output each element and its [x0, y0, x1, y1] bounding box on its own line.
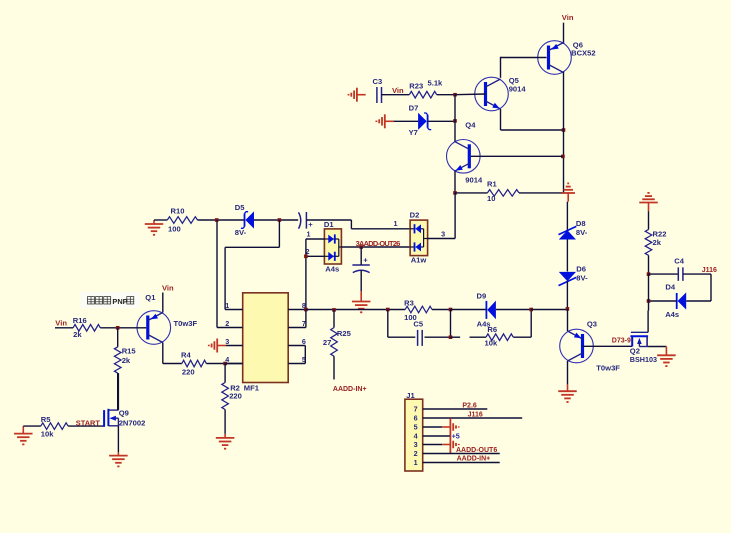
resistor R10	[167, 217, 197, 224]
value A1w (D2)	[411, 256, 427, 265]
wire R1 right to rail corner	[519, 192, 564, 194]
ground symbol GND (Q9)	[109, 452, 128, 466]
svg-text:10: 10	[487, 194, 495, 203]
IC MF1 body	[243, 293, 289, 383]
wire Q3 emitter up	[567, 309, 569, 331]
wire R6 right riser	[530, 310, 532, 338]
svg-text:6: 6	[302, 337, 306, 346]
wire Q9 drain up	[117, 373, 119, 410]
junction pin8 node	[304, 308, 308, 312]
ground symbol GND (Q3)	[558, 384, 577, 402]
svg-text:D9: D9	[477, 292, 487, 301]
value 8V- (D6)	[576, 274, 588, 283]
wire Q1 collector to R4	[163, 363, 182, 365]
designator D7	[409, 104, 419, 113]
designator Q4	[465, 121, 476, 130]
svg-text:Vin: Vin	[162, 283, 174, 292]
designator R2	[230, 384, 240, 393]
svg-text:2k: 2k	[122, 356, 131, 365]
power port Vin (R16 left)	[55, 318, 67, 327]
wire junction to R2	[224, 364, 226, 383]
wire R23 to node	[437, 94, 455, 96]
designator D6	[576, 265, 586, 274]
value BSH103	[630, 355, 657, 364]
svg-text:A1w: A1w	[411, 256, 427, 265]
svg-text:+5: +5	[452, 432, 460, 441]
wire Q4 base to rail	[471, 155, 563, 157]
wire D1 common to D2 pin2	[341, 246, 410, 248]
junction cap branch	[359, 245, 363, 249]
wire D8 to D6	[566, 240, 568, 272]
svg-text:3: 3	[225, 337, 229, 346]
pin 5 (J1)	[414, 423, 418, 432]
wire Q5 emitter to rail	[501, 129, 564, 131]
net label START	[76, 418, 101, 427]
wire pin1 riser	[224, 247, 226, 309]
value 8V- (D5)	[235, 228, 247, 237]
designator R10	[171, 206, 185, 215]
wire C5 branch right riser	[450, 310, 452, 338]
svg-text:D6: D6	[576, 265, 586, 274]
svg-text:2: 2	[414, 449, 418, 458]
svg-text:+: +	[363, 256, 368, 265]
wire R1 left	[455, 192, 487, 194]
capacitor (polarized, to ground)	[352, 256, 369, 273]
svg-text:R1: R1	[487, 180, 497, 189]
pin 6 (J1)	[414, 414, 418, 423]
junction R6 / bus right	[529, 308, 533, 312]
designator R6	[487, 325, 497, 334]
svg-text:9014: 9014	[509, 84, 527, 93]
mosfet Q2 (BSH103)	[630, 311, 648, 347]
designator Q2	[630, 347, 640, 356]
svg-text:7: 7	[414, 405, 418, 414]
value 220 (R2)	[229, 392, 242, 401]
ground symbol GND (Q2)	[657, 347, 676, 367]
designator R5	[41, 415, 51, 424]
svg-text:J1: J1	[406, 391, 415, 400]
value 2k (R22)	[653, 238, 662, 247]
svg-text:9014: 9014	[465, 175, 483, 184]
svg-text:2N7002: 2N7002	[119, 418, 146, 427]
resistor R16	[73, 325, 100, 332]
svg-text:10k: 10k	[41, 429, 54, 438]
wire cap to corner	[306, 219, 351, 221]
wire R10 to D5	[198, 219, 245, 221]
svg-text:2: 2	[225, 319, 229, 328]
svg-text:R5: R5	[41, 415, 51, 424]
resistor R23	[409, 91, 436, 98]
svg-text:D5: D5	[235, 203, 245, 212]
note box (Chinese text)	[81, 292, 141, 308]
svg-text:1: 1	[414, 458, 418, 467]
diode D9 (A4s)	[486, 301, 496, 320]
pin 3 (MF1)	[225, 337, 229, 346]
wire node to D9	[451, 309, 487, 311]
svg-text:8V-: 8V-	[235, 228, 247, 237]
wire node down to Q4 collector	[454, 95, 456, 142]
svg-text:D1: D1	[324, 220, 334, 229]
svg-text:Y7: Y7	[409, 128, 418, 137]
value T0w3F (Q3)	[596, 363, 620, 372]
wire Q6 base node down to Q5 collector	[500, 57, 502, 78]
svg-text:5.1k: 5.1k	[428, 79, 444, 88]
wire MF1 pin2	[217, 327, 243, 329]
pin 8 (MF1)	[302, 301, 306, 310]
capacitor C4	[678, 267, 683, 281]
junction D7 / Q4 collector line	[453, 119, 457, 123]
svg-text:3: 3	[441, 229, 445, 238]
designator R15	[122, 347, 137, 356]
value A4s (D9)	[477, 320, 491, 329]
designator D8	[576, 219, 586, 228]
junction pin2 riser / top line	[215, 218, 219, 222]
junction D4 / Q2 drain	[647, 299, 651, 303]
svg-text:Vin: Vin	[562, 13, 574, 22]
wire node between	[648, 274, 650, 301]
junction D1 pin2 / riser	[304, 255, 308, 259]
svg-text:100: 100	[168, 224, 181, 233]
junction Q5 emitter / rail	[562, 128, 566, 132]
svg-text:AADD-IN+: AADD-IN+	[333, 386, 367, 393]
connector J1 body	[405, 399, 423, 471]
ground symbol GND (MF1 pin3)	[209, 339, 226, 353]
capacitor (polarized, top line)	[299, 212, 314, 229]
value 27 (R25)	[323, 338, 331, 347]
svg-text:10k: 10k	[485, 339, 498, 348]
wire R6 stub	[451, 336, 461, 338]
pin 2 (MF1)	[225, 319, 229, 328]
designator R22	[653, 230, 667, 239]
junction R23 / Q5 base / Q4 collector	[453, 93, 457, 97]
junction C5 left / bus	[386, 308, 390, 312]
value 220 (R4)	[182, 367, 195, 376]
pin 7 (J1)	[414, 405, 418, 414]
svg-text:A4s: A4s	[325, 264, 339, 273]
designator Q9	[119, 409, 129, 418]
svg-text:AADD-OUT6: AADD-OUT6	[456, 447, 497, 454]
wire C5 branch right	[425, 336, 451, 338]
svg-text:3: 3	[414, 440, 418, 449]
value 9014 (Q5)	[509, 84, 527, 93]
designator C5	[413, 320, 423, 329]
wire R25 drop	[333, 310, 335, 328]
svg-text:2k: 2k	[73, 330, 82, 339]
svg-text:Q9: Q9	[119, 409, 129, 418]
designator D1	[324, 220, 334, 229]
resistor R25	[331, 328, 338, 357]
wire junction to cap	[360, 247, 362, 265]
svg-text:R3: R3	[404, 299, 414, 308]
designator R1	[487, 180, 497, 189]
svg-text:Q3: Q3	[587, 319, 597, 328]
svg-text:T0w3F: T0w3F	[596, 363, 620, 372]
svg-text:R16: R16	[73, 316, 87, 325]
wire Vin to Q6 emitter	[563, 23, 565, 44]
wire J1 pin2	[423, 453, 500, 455]
ground symbol GND (R5 left)	[14, 426, 33, 444]
wire R15 to Q9 drain	[117, 373, 119, 410]
value 10k (R5)	[41, 429, 54, 438]
wire node to Q2 drain	[648, 301, 650, 311]
transistor Q3 (PNP T0w3F, mirrored)	[560, 329, 594, 363]
svg-text:5: 5	[414, 423, 418, 432]
svg-text:PNP: PNP	[112, 297, 127, 306]
diode D7 (zener Y7)	[418, 113, 431, 130]
resistor R3	[405, 306, 432, 313]
wire C3 to R23	[382, 94, 410, 96]
wire corner to D2 pin1	[351, 228, 410, 230]
svg-text:4: 4	[225, 355, 229, 364]
net label D73-9	[612, 337, 631, 344]
mosfet Q9 (2N7002)	[104, 409, 118, 427]
wire J1 pin3	[423, 444, 443, 446]
pin 2 label (D1)	[306, 247, 310, 256]
designator R16	[73, 316, 87, 325]
value 10	[487, 194, 495, 203]
value T0w3F (Q1)	[174, 319, 198, 328]
wire R6 right	[513, 336, 531, 338]
designator D5	[235, 203, 245, 212]
svg-text:8V-: 8V-	[576, 274, 588, 283]
svg-text:3AADD-OUT26: 3AADD-OUT26	[356, 239, 401, 248]
svg-text:1: 1	[225, 301, 229, 310]
wire Vin to R16	[55, 327, 73, 329]
pin 1 (J1)	[414, 458, 418, 467]
diode D4 (A4s)	[677, 292, 687, 309]
zener diode D8 (8V-)	[559, 226, 577, 239]
value 9014 (Q4)	[465, 175, 483, 184]
wire J1 pin5	[423, 426, 443, 428]
svg-text:1: 1	[307, 230, 311, 239]
svg-text:D4: D4	[665, 282, 675, 291]
wire bus to Q3 node	[531, 309, 567, 311]
net label Vin (at C3)	[392, 86, 404, 95]
wire D5 to cap	[254, 219, 298, 221]
wire D1 pins riser	[305, 239, 307, 310]
designator R3	[404, 299, 414, 308]
net label AADD-OUT6	[456, 447, 497, 454]
pin 4 (J1)	[414, 432, 418, 441]
wire C4 left	[649, 273, 679, 275]
wire bus D9 to junction	[496, 309, 531, 311]
capacitor C3	[377, 87, 382, 103]
svg-text:1: 1	[394, 219, 398, 228]
wire pin6 to pin5	[304, 346, 306, 364]
svg-text:BSH103: BSH103	[630, 355, 657, 364]
zener diode D6 (8V-)	[559, 272, 577, 286]
value BCX52	[571, 49, 595, 58]
resistor R15	[114, 347, 121, 373]
junction pin1 riser / top line	[278, 218, 282, 222]
wire pin2 riser	[216, 220, 218, 328]
wire corner down	[350, 220, 352, 229]
pin 3 (J1)	[414, 440, 418, 449]
resistor R6	[486, 334, 513, 341]
pin 7 (MF1)	[302, 319, 306, 328]
pin 6 (MF1)	[302, 337, 306, 346]
wire D7 anode	[394, 120, 419, 122]
wire Q1 collector down	[162, 343, 164, 364]
pin 5 (MF1)	[302, 355, 306, 364]
svg-text:6: 6	[414, 414, 418, 423]
note text (CJK strokes + PNP)	[88, 297, 134, 307]
value A4s (D1)	[325, 264, 339, 273]
ground symbol GND (J1 pin5)	[442, 418, 459, 436]
wire D2 pin3 riser	[454, 193, 456, 239]
svg-text:START: START	[76, 418, 101, 427]
designator C4	[674, 257, 684, 266]
value 8V- (D8)	[576, 228, 588, 237]
junction Q3 emitter / D6 / bus	[566, 307, 570, 311]
svg-text:C4: C4	[674, 257, 684, 266]
power port Vin (Q1)	[162, 283, 174, 292]
svg-text:Q1: Q1	[145, 293, 156, 302]
wire MF1 pin4	[225, 363, 243, 365]
svg-text:C5: C5	[413, 320, 423, 329]
value 2k (R15)	[122, 356, 131, 365]
designator Q1	[145, 293, 156, 302]
value 5.1k	[428, 79, 444, 88]
svg-text:MF1: MF1	[244, 384, 260, 393]
wire R22 to C4 node	[648, 255, 650, 274]
designator R25	[337, 329, 352, 338]
wire MF1 pin8	[288, 309, 306, 311]
wire Q3 collector down	[567, 361, 569, 384]
wire MF1 pin6	[288, 345, 305, 347]
value A4s (D4)	[665, 310, 679, 319]
svg-text:220: 220	[229, 392, 242, 401]
value 100 (R10)	[168, 224, 181, 233]
svg-text:8V-: 8V-	[576, 228, 588, 237]
diode pack D2 (A1w)	[410, 220, 428, 256]
wire MF1 pin3	[226, 345, 243, 347]
wire R25 tail	[333, 356, 335, 379]
wire R4 to MF1 pin4	[206, 363, 242, 365]
wire Q5 base	[455, 93, 486, 96]
svg-text:BCX52: BCX52	[571, 49, 595, 58]
zener diode D5 (8V-)	[241, 211, 254, 228]
ground symbol GND (R2)	[216, 434, 235, 449]
ground symbol GND (R10 left)	[145, 220, 164, 235]
wire Q4 emitter down	[454, 171, 456, 193]
designator D9	[477, 292, 487, 301]
resistor R22	[645, 230, 652, 256]
wire Q5 emitter down	[500, 109, 502, 130]
wire R2 to gnd	[224, 410, 226, 434]
capacitor C5	[418, 330, 423, 346]
ground symbol GND (J1 pin3)	[442, 436, 459, 454]
designator Q6	[573, 40, 583, 49]
svg-text:A4s: A4s	[477, 320, 491, 329]
resistor R4	[182, 360, 206, 367]
value 100 (R3)	[404, 313, 417, 322]
net label P2.6	[462, 403, 477, 410]
svg-text:D8: D8	[576, 219, 586, 228]
value 2k (R16)	[73, 330, 82, 339]
wire pin1 riser up	[278, 220, 280, 247]
net label AADD-IN+ (J1)	[457, 455, 491, 462]
value Y7	[409, 128, 418, 137]
svg-text:Q4: Q4	[465, 121, 476, 130]
wire gnd to R10	[154, 219, 167, 221]
designator R23	[409, 82, 423, 91]
wire D4 to node	[649, 300, 677, 302]
designator D2	[410, 211, 420, 220]
transistor Q1 (PNP T0w3F)	[137, 311, 171, 345]
designator Q5	[509, 76, 520, 85]
svg-text:220: 220	[182, 367, 195, 376]
wire D2 pin3	[428, 238, 456, 240]
wire R3 right to node	[432, 309, 451, 311]
svg-text:C3: C3	[373, 77, 383, 86]
power port Vin (top right)	[562, 13, 574, 22]
junction Q4 emitter / R1 / D2	[453, 191, 457, 195]
value 2N7002	[119, 418, 146, 427]
wire D6 to Q3 node	[566, 281, 568, 309]
svg-text:27: 27	[323, 338, 331, 347]
ground symbol GND (D7 left)	[376, 114, 393, 128]
wire pin7 to pin8 node	[305, 310, 307, 328]
designator R4	[181, 350, 191, 359]
junction C5 right / R6 left	[449, 335, 453, 339]
svg-text:A4s: A4s	[665, 310, 679, 319]
wire R6 left	[470, 336, 487, 338]
transistor Q5 (NPN 9014)	[475, 77, 509, 111]
svg-text:AADD-IN+: AADD-IN+	[457, 455, 491, 462]
svg-text:R23: R23	[409, 82, 423, 91]
pin 1 (MF1)	[225, 301, 229, 310]
junction R4 / R2 / pin4	[223, 362, 227, 366]
resistor R2	[222, 383, 229, 410]
junction rail / Q4 base	[561, 155, 565, 159]
net label J116 (C4)	[702, 267, 717, 274]
wire MF1 pin1	[225, 309, 243, 311]
pin 1 label (D2)	[394, 219, 398, 228]
pin 2 (J1)	[414, 449, 418, 458]
svg-text:Vin: Vin	[392, 86, 404, 95]
diode pack D1 (A4s)	[324, 229, 341, 264]
wire Q6 base to Q5 collector node	[501, 57, 547, 59]
value 10k (R6)	[485, 339, 498, 348]
svg-text:D2: D2	[410, 211, 420, 220]
wire junction to R15	[117, 328, 119, 347]
svg-text:T0w3F: T0w3F	[174, 319, 198, 328]
net label J116 (J1)	[468, 412, 483, 419]
pin 3 label (D2)	[441, 229, 445, 238]
junction R16 / R15 / Q1 base	[116, 326, 120, 330]
designator MF1	[244, 384, 260, 393]
power ground (inverted, on rail)	[561, 183, 575, 201]
wire pin1 riser horiz	[225, 246, 279, 248]
wire J1 pin6	[423, 417, 523, 419]
svg-text:R25: R25	[337, 329, 352, 338]
designator D4	[665, 282, 675, 291]
svg-text:R4: R4	[181, 350, 191, 359]
resistor R1	[487, 190, 519, 197]
resistor R5	[41, 423, 68, 430]
wire Q9 source down	[117, 426, 119, 453]
wire gnd to R5	[23, 425, 41, 427]
wire bus pin8 to R3	[306, 309, 405, 311]
wire Vin to Q1 emitter	[162, 293, 164, 313]
designator C3	[373, 77, 383, 86]
wire gnd to D8	[566, 202, 568, 231]
wire Q2 source	[648, 346, 666, 348]
svg-text:J116: J116	[702, 267, 717, 274]
pin 1 label (D1)	[307, 230, 311, 239]
junction R3 / C5 / D9 node	[449, 308, 453, 312]
